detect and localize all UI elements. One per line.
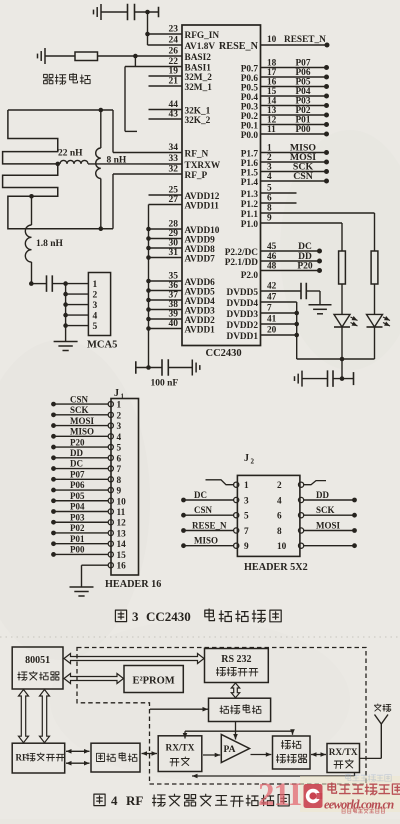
- AVDD bus vertical: [148, 205, 150, 368]
- svg-text:9: 9: [267, 214, 272, 224]
- svg-text:RS 232: RS 232: [221, 654, 251, 665]
- svg-text:DC: DC: [70, 459, 83, 469]
- wire pin 26 BASI2: [98, 47, 183, 57]
- svg-text:SCK: SCK: [316, 505, 335, 515]
- block low pass filter: [273, 736, 311, 769]
- wire node down to BASI1: [134, 56, 136, 67]
- watermark tagline tiny: [342, 809, 385, 814]
- svg-text:13: 13: [267, 106, 277, 116]
- svg-text:26: 26: [169, 47, 179, 57]
- svg-text:36: 36: [169, 281, 179, 291]
- svg-text:21I: 21I: [258, 777, 301, 813]
- wire LED D1 to rail: [341, 327, 343, 359]
- wire J1 pin 4 MISO: [51, 427, 121, 443]
- wire pin 7 DVDD3: [261, 304, 297, 314]
- svg-text:P1.5: P1.5: [241, 168, 259, 178]
- wire pin 14 P03: [261, 97, 330, 109]
- wire J1 pin 14 P01: [51, 534, 126, 550]
- svg-text:P1.6: P1.6: [241, 159, 259, 169]
- svg-text:BASI2: BASI2: [185, 53, 212, 63]
- svg-text:8: 8: [267, 204, 272, 214]
- IC U1 internal pin names left: [185, 31, 221, 336]
- svg-text:22: 22: [169, 57, 179, 67]
- svg-text:J: J: [244, 453, 249, 464]
- svg-text:21: 21: [169, 77, 179, 87]
- svg-text:5: 5: [244, 512, 249, 522]
- svg-text:DVDD4: DVDD4: [226, 299, 258, 309]
- wire pin 29 AVDD: [149, 229, 183, 239]
- J2 pin 6 right: [277, 505, 357, 522]
- IC U1 internal pin names right: [219, 41, 259, 342]
- wire pin 27 AVDD11: [149, 195, 183, 205]
- svg-text:P2.2/DC: P2.2/DC: [225, 248, 258, 258]
- wire P1.1 drop to R3: [374, 213, 376, 251]
- svg-text:5: 5: [267, 184, 272, 194]
- svg-text:P0.0: P0.0: [241, 131, 259, 141]
- svg-text:AVDD4: AVDD4: [185, 297, 216, 307]
- label HEADER 5X2: [244, 562, 308, 573]
- ground G7 below J1: [70, 587, 94, 596]
- bus arrow 80051 to RF chip (right): [40, 690, 50, 743]
- svg-text:41: 41: [267, 315, 277, 325]
- svg-text:35: 35: [169, 272, 179, 282]
- wire J1 pin 12 P03: [51, 512, 126, 528]
- antenna meander ANT1: [3, 110, 113, 229]
- svg-text:P01: P01: [70, 534, 85, 544]
- MCA5 pin 1 number: [93, 280, 98, 290]
- wire pin 21 32M_1: [149, 77, 183, 87]
- wire pin 17 P06: [261, 68, 330, 80]
- svg-text:P0.1: P0.1: [241, 121, 259, 131]
- wire G6 to C5: [302, 378, 328, 380]
- svg-text:P0.5: P0.5: [241, 83, 259, 93]
- svg-text:DVDD5: DVDD5: [226, 288, 258, 298]
- wire RX/TX2 to antenna: [360, 757, 382, 759]
- wire J1 pin 13 P02: [51, 523, 126, 539]
- svg-text:8: 8: [277, 527, 282, 537]
- resistor R2: [339, 251, 346, 284]
- block RX/TX switch 1: [158, 736, 202, 772]
- inductor L1 22nH: [60, 160, 88, 164]
- svg-text:80051: 80051: [25, 655, 50, 666]
- svg-text:7: 7: [244, 527, 249, 537]
- svg-text:P20: P20: [297, 262, 313, 272]
- svg-text:12: 12: [117, 519, 127, 529]
- wire pin 8 P1.1 to LED column right: [261, 204, 375, 214]
- svg-text:6: 6: [277, 512, 282, 522]
- node junction supply: [340, 376, 345, 381]
- svg-text:22 nH: 22 nH: [58, 149, 83, 159]
- wire pin 34 RF_N: [113, 143, 182, 153]
- svg-text:MISO: MISO: [70, 427, 94, 437]
- wire N1 down to pins 23/24: [147, 12, 149, 45]
- wire DVDD rail bottom: [297, 358, 375, 360]
- svg-text:RFG_IN: RFG_IN: [185, 31, 220, 41]
- caption figure 3 CC2430: [115, 609, 281, 624]
- wire C1 to node N1: [135, 11, 159, 13]
- wire pin 44 32K_1: [149, 100, 183, 110]
- svg-text:DVDD1: DVDD1: [226, 332, 258, 342]
- svg-text:28: 28: [169, 220, 179, 230]
- svg-text:15: 15: [117, 551, 127, 561]
- svg-text:CC2430: CC2430: [206, 348, 242, 359]
- wire J1 pin 8 P07: [51, 469, 121, 485]
- svg-text:AVDD1: AVDD1: [185, 325, 216, 335]
- MCA5 pin 2 number: [93, 291, 98, 301]
- capacitor C5: [328, 370, 334, 387]
- svg-text:DVDD2: DVDD2: [226, 321, 258, 331]
- wire LED D2 to rail: [374, 327, 376, 359]
- svg-text:AVDD7: AVDD7: [185, 254, 216, 264]
- svg-text:2: 2: [117, 411, 122, 421]
- wire J1 pin 7 DC: [51, 459, 121, 475]
- junction dots on AVDD bus: [146, 227, 151, 331]
- wire rail down to supply node: [341, 359, 343, 379]
- capacitor C1: [128, 4, 135, 21]
- svg-text:2: 2: [267, 153, 272, 163]
- LED D2: [367, 314, 391, 327]
- wire pin 36 AVDD: [149, 281, 183, 291]
- wire J1 pin 15 P00: [51, 545, 126, 561]
- svg-text:MCA5: MCA5: [87, 340, 117, 351]
- wire pin 10 RESET_N: [261, 35, 330, 48]
- capacitor C3 100nF: [162, 359, 168, 376]
- label crystal circuit (jing zhen dian lu): [44, 74, 91, 85]
- svg-text:25: 25: [169, 186, 179, 196]
- svg-text:11: 11: [267, 125, 276, 135]
- wire J1 pin 9 P06: [51, 480, 121, 496]
- svg-text:P2.1/DD: P2.1/DD: [225, 258, 259, 268]
- svg-text:P03: P03: [70, 512, 85, 522]
- wire pin 47 DVDD4: [261, 293, 297, 303]
- junction dots on DVDD bus: [294, 311, 299, 338]
- arrow LPF / RX-TX2: [311, 752, 326, 757]
- block RS232 converter: [205, 649, 269, 683]
- wire pin 19 32M_2: [149, 67, 183, 77]
- svg-text:P20: P20: [70, 437, 85, 447]
- wire pin 2 MOSI: [261, 152, 330, 165]
- svg-text:DD: DD: [70, 448, 83, 458]
- J2 pin 7 left: [181, 521, 249, 538]
- node junction AVDD bus / 100nF: [146, 365, 151, 370]
- svg-text:CC2430: CC2430: [146, 609, 191, 624]
- MCA5 ground bus vertical: [65, 284, 67, 342]
- svg-text:P04: P04: [70, 502, 85, 512]
- wire G2 to R1: [45, 55, 75, 57]
- wire C4 to ground G5: [306, 291, 320, 305]
- svg-text:DC: DC: [298, 242, 312, 252]
- svg-text:P06: P06: [296, 68, 311, 78]
- IC U1 CC2430 body: [182, 25, 261, 346]
- wire pin 28 AVDD: [149, 220, 183, 230]
- node junction 8nH bottom: [99, 226, 104, 231]
- LED D1: [334, 314, 358, 327]
- svg-text:32K_1: 32K_1: [185, 106, 211, 116]
- svg-text:CSN: CSN: [194, 505, 213, 515]
- wire top rail to RF_N corner: [8, 110, 113, 153]
- svg-text:P02: P02: [296, 106, 311, 116]
- svg-text:AVDD9: AVDD9: [185, 235, 216, 245]
- arrow into driver circuit: [150, 707, 208, 712]
- capacitor C2: [47, 275, 53, 292]
- capacitor C4: [301, 283, 306, 300]
- svg-text:1.8 nH: 1.8 nH: [36, 239, 64, 249]
- wire pin 24 AV1.8V: [148, 36, 183, 46]
- wire pin 16 P05: [261, 78, 330, 90]
- wire pin 25 AVDD12: [149, 186, 183, 196]
- wire pin 11 P00: [261, 125, 330, 137]
- svg-text:45: 45: [267, 242, 277, 252]
- arrow rail to PA: [233, 731, 238, 739]
- wire pin 35 AVDD: [149, 272, 183, 282]
- wire pin 32 RF_P with drop: [113, 165, 182, 229]
- svg-text:P1.1: P1.1: [241, 210, 259, 220]
- svg-text:1: 1: [244, 481, 249, 491]
- wire R2 to LED D1: [341, 284, 343, 314]
- connector MCA5 box: [88, 273, 110, 336]
- terminal stub T3: [353, 372, 355, 385]
- arrow matching / RX-TX1: [142, 751, 158, 756]
- bus arrow RS232 to driver: [231, 683, 239, 698]
- wire BASI1 stub down with hook: [125, 67, 137, 132]
- svg-text:HEADER 16: HEADER 16: [105, 579, 161, 590]
- svg-text:7: 7: [117, 465, 122, 475]
- svg-text:MOSI: MOSI: [316, 521, 341, 531]
- svg-text:12: 12: [267, 116, 277, 126]
- MCA5 pin 3 number: [93, 301, 98, 311]
- svg-text:1: 1: [93, 280, 98, 290]
- IC U1 label CC2430: [206, 348, 242, 359]
- svg-text:15: 15: [267, 87, 277, 97]
- svg-text:DC: DC: [194, 490, 207, 500]
- svg-text:10: 10: [277, 542, 287, 552]
- wire pin 30 AVDD: [149, 239, 183, 249]
- wire pin 20 DVDD1: [261, 326, 297, 336]
- connector J1 designator: [114, 388, 125, 401]
- wire pin 33 TXRXW: [88, 154, 182, 164]
- svg-text:RESE_N: RESE_N: [219, 41, 259, 52]
- block driver circuit: [209, 698, 271, 721]
- svg-text:P1.4: P1.4: [241, 178, 259, 188]
- svg-text:RX/TX: RX/TX: [166, 744, 195, 754]
- svg-text:14: 14: [117, 540, 127, 550]
- faint separator dots: [0, 636, 400, 638]
- wire pin 45 DC: [261, 242, 323, 254]
- label L3 1.8nH: [36, 239, 64, 249]
- wire pin 46 DD: [261, 252, 323, 264]
- svg-text:3: 3: [244, 497, 249, 507]
- wire P1.0 drop to R2: [341, 223, 343, 251]
- svg-text:P05: P05: [296, 78, 311, 88]
- resistor R3: [371, 251, 378, 284]
- wire J1 pin 16 to ground: [82, 562, 127, 587]
- node junction on BASI2 line: [133, 54, 138, 59]
- svg-text:5: 5: [117, 444, 122, 454]
- wire C5 to terminal T3: [333, 378, 354, 380]
- watermark paper highlight band: [300, 776, 400, 812]
- block RF transceiver chip: [12, 743, 64, 773]
- caption figure 4 RF transceiver: [94, 793, 289, 808]
- watermark eeworld logo square: [304, 784, 323, 808]
- svg-text:P0.6: P0.6: [241, 74, 259, 84]
- arrow rail to LPF: [290, 729, 295, 735]
- svg-text:14: 14: [267, 97, 277, 107]
- svg-text:16: 16: [117, 562, 127, 572]
- wire pin 42 DVDD5 to C4: [261, 282, 302, 292]
- svg-text:TXRXW: TXRXW: [185, 161, 221, 171]
- svg-text:31: 31: [169, 248, 179, 258]
- node N1 junction: [145, 10, 150, 15]
- svg-text:P04: P04: [296, 87, 311, 97]
- svg-text:6: 6: [117, 454, 122, 464]
- svg-text:RF: RF: [16, 753, 28, 763]
- label MCA5: [87, 340, 117, 351]
- svg-text:27: 27: [169, 195, 179, 205]
- J2 pin 10 right: [277, 542, 357, 552]
- wire pin 37 AVDD: [149, 291, 183, 301]
- node junction rail/8nH: [99, 108, 104, 113]
- watermark 21ic red text: [258, 777, 301, 813]
- svg-text:2: 2: [277, 481, 282, 491]
- MCA5 pin 4 number: [93, 312, 98, 322]
- svg-text:RESE_N: RESE_N: [192, 521, 227, 531]
- J2 pin 1 left: [206, 480, 250, 491]
- watermark eeworld chinese title: [328, 783, 400, 795]
- svg-text:P03: P03: [296, 97, 311, 107]
- svg-text:44: 44: [169, 100, 179, 110]
- svg-text:AVDD8: AVDD8: [185, 245, 216, 255]
- svg-text:RESET_N: RESET_N: [284, 35, 326, 45]
- svg-text:J: J: [114, 388, 119, 399]
- J2 pin 9 left: [181, 536, 249, 553]
- svg-text:P07: P07: [296, 59, 311, 69]
- label antenna (tian xian): [374, 704, 390, 712]
- svg-text:34: 34: [169, 143, 179, 153]
- wire pin 48 P20: [261, 262, 323, 274]
- svg-text:P0.7: P0.7: [241, 64, 259, 74]
- svg-text:PA: PA: [224, 745, 236, 755]
- svg-text:7: 7: [267, 304, 272, 314]
- MCA5 pin 5 number: [93, 322, 98, 332]
- svg-text:42: 42: [267, 282, 277, 292]
- svg-text:43: 43: [169, 110, 179, 120]
- svg-text:P0.2: P0.2: [241, 112, 259, 122]
- wire J1 pin 6 DD: [51, 448, 121, 464]
- svg-text:37: 37: [169, 291, 179, 301]
- svg-text:32K_2: 32K_2: [185, 116, 211, 126]
- block E2PROM: [124, 666, 183, 693]
- svg-text:3: 3: [132, 609, 139, 624]
- svg-text:13: 13: [117, 529, 127, 539]
- J2 pin 3 left: [181, 490, 249, 507]
- svg-text:100 nF: 100 nF: [151, 379, 179, 389]
- label HEADER 16: [105, 579, 161, 590]
- watermark faint blue echo: [346, 774, 392, 781]
- svg-text:24: 24: [169, 36, 179, 46]
- svg-text:9: 9: [117, 487, 122, 497]
- block matching circuit: [91, 743, 140, 772]
- svg-text:4: 4: [277, 497, 282, 507]
- svg-text:17: 17: [267, 68, 277, 78]
- svg-text:33: 33: [169, 154, 179, 164]
- svg-text:SCK: SCK: [70, 405, 89, 415]
- bus arrow 80051 to RF chip (left): [19, 690, 29, 743]
- ground G6 (rotated left): [295, 371, 303, 387]
- junction dots on MCA5 bus: [63, 292, 68, 328]
- svg-text:AVDD3: AVDD3: [185, 306, 216, 316]
- svg-text:29: 29: [169, 229, 179, 239]
- arrow RF chip / matching upper: [66, 749, 90, 754]
- wire pin 12 P01: [261, 116, 330, 128]
- svg-text:RF: RF: [126, 793, 143, 808]
- svg-text:BASI1: BASI1: [185, 63, 212, 73]
- node junction 1.8nH bottom: [29, 281, 34, 286]
- ground G4 (rotated right): [192, 360, 200, 376]
- svg-text:8: 8: [117, 476, 122, 486]
- svg-text:4: 4: [267, 172, 272, 182]
- svg-text:32M_2: 32M_2: [185, 73, 213, 83]
- svg-text:P0.4: P0.4: [241, 93, 259, 103]
- wire pin 15 P04: [261, 87, 330, 99]
- svg-text:32: 32: [169, 165, 179, 175]
- svg-text:4: 4: [111, 793, 118, 808]
- svg-text:P2.0: P2.0: [241, 271, 259, 281]
- bus arrow 80051 to E2PROM: [64, 674, 124, 684]
- arrow rail to RX/TX1: [183, 731, 188, 738]
- wire ground to C1: [101, 11, 128, 13]
- svg-text:P07: P07: [70, 469, 85, 479]
- terminal stub T1: [158, 7, 160, 18]
- wire pin 23 RFG_IN: [148, 25, 183, 35]
- wire pin 38 AVDD: [149, 300, 183, 310]
- svg-text:P05: P05: [70, 491, 85, 501]
- svg-text:20: 20: [267, 326, 277, 336]
- svg-text:4: 4: [93, 312, 98, 322]
- svg-text:P1.7: P1.7: [241, 149, 259, 159]
- svg-text:AVDD2: AVDD2: [185, 316, 216, 326]
- svg-text:2: 2: [93, 291, 98, 301]
- ground G5: [309, 305, 332, 314]
- inductor L2 8nH vertical: [96, 110, 101, 229]
- svg-text:P00: P00: [296, 125, 311, 135]
- wire pin 43 32K_2: [149, 110, 183, 120]
- connector J1 box: [111, 399, 139, 576]
- svg-text:DVDD3: DVDD3: [226, 310, 258, 320]
- wire pin 3 SCK: [261, 162, 330, 175]
- node junction on pin23 line: [145, 32, 150, 37]
- node junction meander bottom / 1.8nH: [29, 194, 34, 199]
- svg-text:AVDD12: AVDD12: [185, 192, 220, 202]
- wire J1 pin 5 P20: [51, 437, 121, 453]
- svg-text:30: 30: [169, 239, 179, 249]
- svg-text:3: 3: [267, 163, 272, 173]
- svg-text:16: 16: [267, 78, 277, 88]
- svg-text:P1.0: P1.0: [241, 220, 259, 230]
- ground G2 (left of R1): [38, 48, 46, 64]
- wire 1.8nH to C2: [31, 283, 46, 285]
- svg-text:1: 1: [267, 144, 272, 154]
- svg-text:DD: DD: [316, 490, 329, 500]
- block 80051 microprocessor: [12, 647, 63, 689]
- wire J1 pin 2 SCK: [51, 405, 121, 421]
- svg-text:2: 2: [251, 458, 255, 466]
- wire pin 4 CSN: [261, 171, 330, 184]
- svg-text:40: 40: [169, 319, 179, 329]
- J2 pin 8 right: [277, 521, 357, 538]
- antenna symbol: [375, 715, 389, 759]
- wire pin 1 MISO: [261, 143, 330, 156]
- ground G1 (top left, rotated): [94, 4, 102, 20]
